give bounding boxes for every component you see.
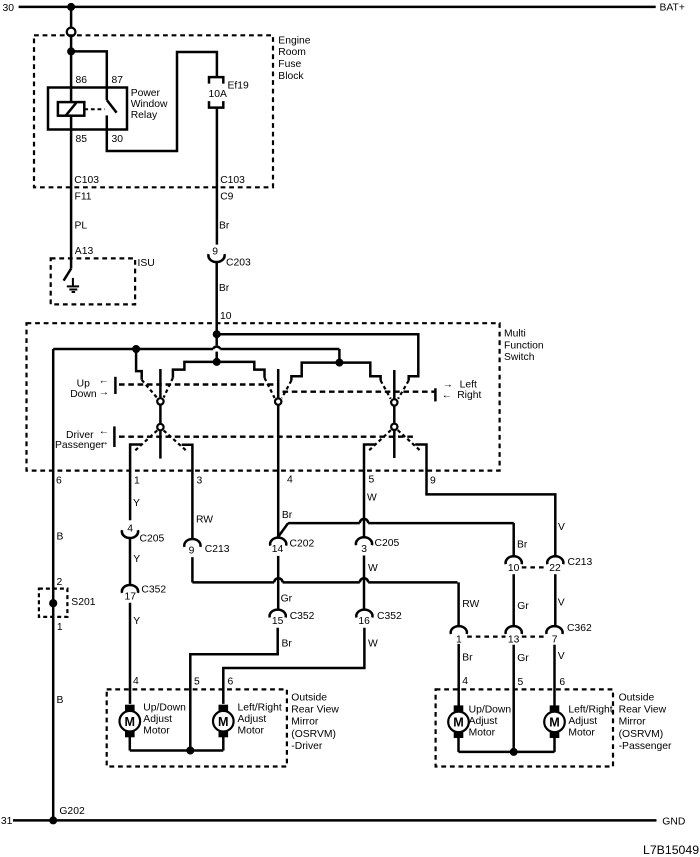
svg-text:PL: PL [75,221,88,232]
svg-text:4: 4 [127,524,133,535]
OSRVM passenger enclosure [436,689,613,766]
svg-text:B: B [57,532,64,543]
wire battery bus down to fuse block [70,7,73,28]
svg-text:←: ← [99,426,109,437]
label C213 passenger [568,557,593,568]
label Power Window Relay [131,88,168,121]
wire C202-14 to C352-15 (Gr) [277,556,280,609]
wire C352-17 to driver up/down motor (Y) [129,603,132,704]
diagram number L7B15049 [643,843,699,857]
svg-text:Adjust: Adjust [238,714,267,725]
dashed connector link 1-13 [467,635,505,637]
svg-text:C9: C9 [220,191,233,202]
pin 10 label [220,311,232,322]
svg-text:→: → [99,387,109,398]
svg-text:C103: C103 [220,175,245,186]
wire M4 to common bus [553,737,556,752]
motor pin 4 label driver [133,676,139,687]
svg-text:C213: C213 [205,544,230,555]
label Driver [66,430,94,441]
junction at G202 [49,816,57,824]
svg-text:13: 13 [508,634,520,645]
svg-text:W: W [368,638,378,649]
svg-text:M: M [125,715,136,729]
label Gr driver [281,593,293,604]
svg-text:Up/Down: Up/Down [143,702,186,713]
svg-text:(OSRVM): (OSRVM) [291,729,336,740]
label Gr passenger 2 [517,653,529,664]
svg-text:Up: Up [77,379,90,390]
left/right row bracket [434,388,437,401]
motor M2 left/right adjust driver [213,705,234,738]
motor M1 up/down adjust driver [120,705,141,738]
label C205 passengerfeed [375,538,400,549]
pin 86 label [76,75,88,86]
wire M1 to common bus [129,737,132,751]
label PL [75,221,88,232]
connector arc RW pin 1 [451,626,467,645]
wire pin10 net to switch SW3 right contact [217,334,419,380]
svg-text:85: 85 [76,134,88,145]
svg-text:C352: C352 [290,611,315,622]
arrow up-left [99,376,109,387]
terminal circle at fuse block boundary [67,28,76,37]
wire C203 to multifunction switch (Br) [215,263,218,334]
label Ef19 [228,81,250,92]
svg-text:Fuse: Fuse [278,59,301,70]
wire C213-10 to C362-13 (Gr) [512,574,515,626]
svg-text:-Passenger: -Passenger [619,741,672,752]
label W 2 [368,563,378,574]
svg-text:Engine: Engine [278,35,310,46]
svg-text:Br: Br [219,283,230,294]
splice S201 box [39,589,68,617]
label up/down adjust motor passenger [469,704,512,738]
label Br below C203 [219,283,230,294]
wire SW1 right to connector C213 pin9 (RW) [182,445,193,539]
label GND [662,817,685,828]
OSRVM driver enclosure [107,689,287,766]
svg-text:S201: S201 [71,597,95,608]
svg-text:Adjust: Adjust [568,716,597,727]
label Br passenger [517,539,528,550]
svg-text:-Driver: -Driver [291,741,323,752]
net 30 battery bus [19,6,656,9]
svg-text:3: 3 [197,475,203,486]
svg-text:4: 4 [462,676,468,687]
relay switch contact [107,88,117,130]
svg-text:Function: Function [504,340,544,351]
switch SW1 lower contact [157,424,163,430]
switch SW1 upper contact [157,398,163,404]
svg-text:Right: Right [457,390,481,401]
svg-text:W: W [368,563,378,574]
label C9 [220,191,233,202]
splice S201 junction [49,599,57,607]
motor pin 5 label driver [194,676,200,687]
switch SW2 stem upper [277,369,280,398]
pin 85 label [76,134,88,145]
driver/passenger actuation dashed row [119,436,413,438]
junction passenger common [510,748,518,756]
svg-text:Gr: Gr [517,653,529,664]
svg-text:C205: C205 [140,533,165,544]
net 31 ground bus [13,819,657,822]
switch SW1 stem middle [159,405,162,424]
motor pin 6 label driver [228,676,234,687]
connector C362 pin 7 [546,626,562,645]
label left/right adjust motor passenger [568,704,612,738]
pin 30 label [112,134,124,145]
MFS pin 6 label [56,475,62,486]
dashed connector link 10-22 [522,566,547,568]
up/down row bracket [114,377,117,394]
label V lower [558,651,565,662]
svg-text:Rear View: Rear View [619,705,667,716]
svg-text:C103: C103 [74,175,99,186]
switch SW3 dashed feeds [381,381,409,399]
label Br pin4 [282,510,293,521]
wire C213-22 to C362-7 (V) [554,574,557,626]
arrow driver-left [99,426,109,437]
arrow down-right [99,387,109,398]
MFS pin 1 label [134,475,140,486]
svg-text:31: 31 [1,816,13,827]
svg-text:Relay: Relay [131,110,158,121]
svg-text:Br: Br [282,510,293,521]
label C203 [226,258,251,269]
label C213 pin9 [205,544,230,555]
svg-text:Y: Y [133,554,140,565]
svg-text:Motor: Motor [469,728,496,739]
label C205 driver [140,533,165,544]
svg-text:6: 6 [559,677,565,688]
label RW passenger [462,599,479,610]
label Y 1 [133,498,140,509]
svg-text:Switch: Switch [504,352,535,363]
svg-text:Outside: Outside [291,692,327,703]
pin 87 label [112,75,124,86]
pin 1 label S201 [57,622,63,633]
svg-text:Y: Y [133,498,140,509]
label C103 right [220,175,245,186]
Engine Room Fuse Block enclosure [34,35,273,187]
svg-text:17: 17 [125,592,137,603]
MFS pin 4 label [287,475,293,486]
svg-text:Br: Br [219,221,230,232]
junction pin10 net lower [213,358,221,366]
svg-text:5: 5 [369,475,375,486]
svg-text:Br: Br [517,539,528,550]
wire relay pin 30 to fuse Ef19 [107,52,217,151]
wire into fuse block [70,36,73,51]
svg-text:15: 15 [272,616,284,627]
motor M3 up/down adjust passenger [448,705,469,738]
switch SW1 stem lower stub [159,430,162,458]
wire C205-4 to C352-17 (Y) [129,539,132,585]
wire pin7 to passenger left/right motor (V) [553,645,556,706]
label Right [457,390,481,401]
svg-text:7: 7 [552,634,558,645]
svg-text:3: 3 [361,544,367,555]
svg-text:Down: Down [70,389,97,400]
svg-text:→: → [99,437,109,448]
connector C352 pin 15 [270,610,286,628]
svg-text:Gr: Gr [517,601,529,612]
svg-text:1: 1 [456,634,462,645]
label A13 [75,246,94,257]
svg-text:10: 10 [220,311,232,322]
svg-text:2: 2 [57,577,63,588]
svg-text:10: 10 [508,563,520,574]
MFS pin 3 label [197,475,203,486]
svg-text:Adjust: Adjust [469,716,498,727]
wire M3 to common bus [457,737,460,752]
relay coil [58,102,84,116]
svg-text:Motor: Motor [238,726,265,737]
label V middle [558,597,565,608]
svg-text:30: 30 [3,3,15,14]
connector C362 pin 13 [506,626,522,645]
svg-text:C202: C202 [290,539,315,550]
svg-text:RW: RW [196,514,213,525]
wire fuse Ef19 down (Br) [216,108,219,245]
label G202 [59,806,85,817]
connector C205 pin 3 [356,537,372,555]
svg-text:22: 22 [549,563,561,574]
svg-text:Rear View: Rear View [291,705,339,716]
svg-text:1: 1 [57,622,63,633]
svg-text:V: V [558,522,565,533]
label Up [77,379,90,390]
svg-text:Br: Br [462,653,473,664]
svg-text:C203: C203 [226,258,251,269]
connector C202 pin 14 [270,538,286,556]
ISU enclosure [51,258,135,304]
label C202 [290,539,315,550]
svg-text:←: ← [442,390,452,401]
svg-text:C352: C352 [141,585,166,596]
label Br wire C9 [219,221,230,232]
svg-text:Up/Down: Up/Down [469,704,512,715]
switch SW3 upper contact [391,399,397,405]
svg-text:Passenger: Passenger [55,440,105,451]
label Br passenger lower [462,653,473,664]
svg-text:→: → [443,380,453,391]
svg-text:Left/Right: Left/Right [238,702,282,713]
connector C213 pin 9 [184,539,200,557]
label Br driver lower [282,638,293,649]
label BAT+ [660,3,685,14]
svg-text:4: 4 [287,475,293,486]
wire SW3 left to connector C205 pin3 (W) [364,445,375,537]
label Passenger [55,440,105,451]
svg-text:BAT+: BAT+ [660,3,685,14]
label W 3 [368,638,378,649]
wire C352-16 to driver motors pin6 (W) [223,628,364,704]
svg-text:V: V [558,597,565,608]
wire pin6 net to SW1 left contact [136,349,142,380]
svg-text:A13: A13 [75,246,94,257]
wire SW3 right to connector C213 pin22 (V) [415,445,555,556]
svg-text:L7B15049: L7B15049 [643,843,699,857]
wire pin6 net to SW3 left contact [339,363,380,381]
wire C205-3 to C352-16 (W) [363,556,366,609]
up/down actuation dashed row [119,383,277,385]
wire to relay pin 86 coil [70,51,73,102]
switch SW1 lower dashed blades [135,430,186,450]
label B upper [57,532,64,543]
label W 1 [367,492,377,503]
switch SW1 dashed feeds [142,378,173,398]
connector C352 pin 16 [356,610,372,628]
label Engine Room Fuse Block [278,35,310,82]
switch SW3 stem lower stub [393,430,396,458]
MFS pin 5 label [369,475,375,486]
Multi Function Switch enclosure [27,323,500,470]
svg-text:Left: Left [460,379,477,390]
svg-text:V: V [558,651,565,662]
label OSRVM driver [291,692,339,752]
label C103 left [74,175,99,186]
wire pin13 to passenger motors pin5 (Gr) [512,645,515,752]
wire SW2 to connector C202 pin14 (Br) [277,405,280,537]
wire Br branch horizontal with hop [288,519,514,556]
svg-text:M: M [549,716,560,730]
connector C352 pin 17 [122,585,138,603]
wire pin10 net to SW2 left contact [217,362,265,378]
connector C205 pin 4 [122,524,138,539]
svg-text:Room: Room [278,47,306,58]
motor M4 left/right adjust passenger [544,705,565,738]
motor pin 6 label passenger [559,677,565,688]
label 31 [1,816,13,827]
svg-text:Ef19: Ef19 [228,81,250,92]
wire pin6 net to ground G202 (B) [52,349,55,820]
ISU switch blade [64,269,72,281]
passenger motors common bus [459,751,555,754]
motor pin 5 label passenger [518,677,524,688]
wire branch to passenger mirrors (Br) diagonal [278,523,288,537]
label C362 [567,623,592,634]
svg-text:87: 87 [112,75,124,86]
svg-text:86: 86 [76,75,88,86]
svg-text:Mirror: Mirror [619,717,647,728]
label Down [70,389,97,400]
svg-text:RW: RW [462,599,479,610]
wire C213-9 to passenger side (RW) with hops [192,557,458,625]
svg-text:Motor: Motor [568,728,595,739]
wire pin10 net to SW1 right contact [173,362,217,378]
connector C213 pin 22 [547,556,563,574]
label Multi Function Switch [504,328,544,363]
svg-text:9: 9 [212,247,218,258]
wire SW1 left to connector C205 pin4 (Y) [130,445,141,521]
switch SW2 contact [275,398,281,404]
label C352 pin16 [377,611,402,622]
label F11 [75,191,92,202]
svg-text:5: 5 [518,677,524,688]
label Y 3 [133,616,140,627]
switch SW3 stem upper [393,370,396,399]
pin 2 label [57,577,63,588]
label C352 pin17 [141,585,166,596]
arrow right-left [442,390,452,401]
svg-text:6: 6 [56,475,62,486]
junction feed to relay pins 86/87 [67,47,75,55]
junction pin6 net at SW1 [132,345,140,353]
relay coil-contact link [84,108,104,110]
driver motors common bus [130,749,224,752]
svg-text:Left/Right: Left/Right [568,704,612,715]
svg-text:Block: Block [278,71,304,82]
switch SW2 dashed feeds [265,378,292,398]
label 10A [209,89,228,100]
svg-text:C352: C352 [377,611,402,622]
dashed connector link 13-7 [522,635,547,637]
svg-text:ISU: ISU [138,258,155,269]
label Gr passenger 1 [517,601,529,612]
label C352 pin15 [290,611,315,622]
svg-text:Br: Br [282,638,293,649]
junction pin10 net top [213,330,221,338]
svg-text:9: 9 [189,546,195,557]
wire pin6 net horizontal [53,348,339,351]
label OSRVM passenger [619,692,672,752]
svg-text:GND: GND [662,817,685,828]
arrow passenger-right [99,437,109,448]
connector C203 pin 9 [208,247,224,263]
svg-text:Motor: Motor [143,726,170,737]
svg-text:Outside: Outside [619,692,655,703]
svg-text:9: 9 [430,475,436,486]
label ISU [138,258,155,269]
ground symbol inside ISU [67,278,79,292]
relay box Power Window Relay [48,88,127,130]
svg-text:C205: C205 [375,538,400,549]
svg-text:Multi: Multi [504,328,526,339]
svg-text:10A: 10A [209,89,228,100]
motor pin 4 label passenger [462,676,468,687]
wire to relay pin 87 [71,51,107,87]
junction driver common [186,747,194,755]
svg-text:G202: G202 [59,806,85,817]
wire pin10 net vertical with hop [213,334,220,362]
switch SW1 stem upper [159,369,162,398]
svg-text:M: M [218,715,229,729]
label 30 [3,3,15,14]
left/right actuation dashed row [283,391,436,393]
svg-text:B: B [57,695,64,706]
svg-text:C213: C213 [568,557,593,568]
svg-text:30: 30 [112,134,124,145]
svg-text:F11: F11 [75,191,92,202]
wire relay pin 85 down (PL) [70,116,73,269]
label up/down adjust motor driver [143,702,186,736]
svg-text:(OSRVM): (OSRVM) [619,729,664,740]
label Y 2 [133,554,140,565]
svg-text:6: 6 [228,676,234,687]
junction pin6 net at SW2/SW3 [335,359,343,367]
svg-text:Adjust: Adjust [143,714,172,725]
driver/passenger row bracket [113,426,116,447]
svg-text:Y: Y [133,616,140,627]
wire pin1 to passenger up/down motor (Br) [457,644,460,706]
wire pin6 net to SW2 right contact [291,363,339,381]
label Left [460,379,477,390]
svg-text:←: ← [99,376,109,387]
svg-text:W: W [367,492,377,503]
